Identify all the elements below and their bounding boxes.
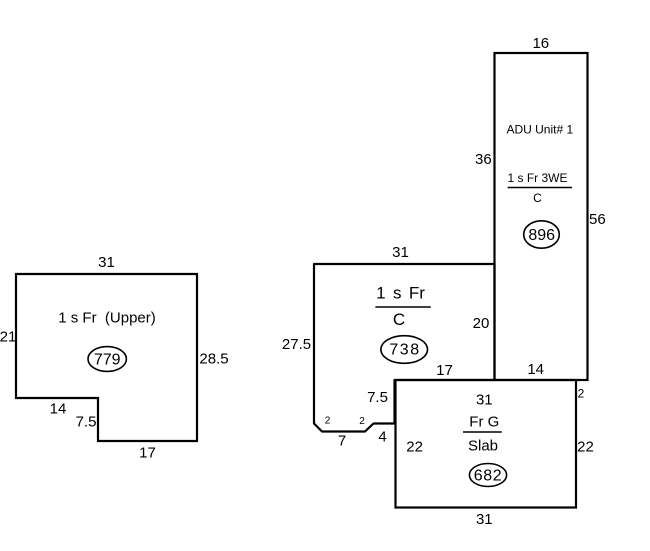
svg-text:C: C <box>533 191 542 205</box>
svg-text:28.5: 28.5 <box>199 351 228 368</box>
svg-text:2: 2 <box>359 416 365 427</box>
building outline: 1 s Fr / C (middle) <box>314 264 495 432</box>
svg-text:14: 14 <box>50 401 67 418</box>
building outline: Fr G / Slab <box>396 380 577 508</box>
svg-text:1 s Fr (Upper): 1 s Fr (Upper) <box>58 310 156 327</box>
svg-text:31: 31 <box>476 392 493 409</box>
svg-text:C: C <box>393 310 405 329</box>
svg-text:31: 31 <box>98 254 115 271</box>
svg-text:16: 16 <box>532 35 549 52</box>
building outline: 1 s Fr (Upper) <box>16 274 197 441</box>
svg-text:4: 4 <box>378 429 386 446</box>
area ellipse 896 <box>524 221 560 248</box>
svg-text:ADU Unit# 1: ADU Unit# 1 <box>506 123 573 137</box>
svg-text:682: 682 <box>474 468 503 485</box>
svg-text:56: 56 <box>589 211 606 228</box>
svg-text:738: 738 <box>389 342 420 359</box>
svg-text:27.5: 27.5 <box>282 336 311 353</box>
svg-text:31: 31 <box>476 511 493 528</box>
svg-text:17: 17 <box>139 445 156 462</box>
svg-text:21: 21 <box>0 329 16 346</box>
fraction line Fr G <box>463 431 502 433</box>
svg-text:1 s Fr 3WE: 1 s Fr 3WE <box>507 171 567 185</box>
area ellipse 738 <box>381 336 428 364</box>
svg-text:17: 17 <box>436 362 453 379</box>
svg-text:896: 896 <box>528 227 555 244</box>
fraction line ADU <box>508 187 572 189</box>
fraction line middle <box>375 306 430 308</box>
svg-text:20: 20 <box>473 315 490 332</box>
svg-text:22: 22 <box>577 439 594 456</box>
svg-text:7: 7 <box>338 433 346 450</box>
svg-text:22: 22 <box>406 439 423 456</box>
svg-text:7.5: 7.5 <box>367 389 388 406</box>
area ellipse 682 <box>469 464 506 487</box>
svg-text:7.5: 7.5 <box>76 414 97 431</box>
building outline: ADU Unit# 1 <box>495 53 588 380</box>
svg-text:2: 2 <box>578 386 585 400</box>
svg-text:14: 14 <box>527 361 544 378</box>
svg-text:1 s Fr: 1 s Fr <box>376 284 425 303</box>
svg-text:2: 2 <box>325 416 331 427</box>
svg-text:779: 779 <box>94 352 121 369</box>
svg-text:31: 31 <box>392 244 409 261</box>
svg-text:36: 36 <box>475 151 492 168</box>
svg-text:Fr G: Fr G <box>469 414 499 431</box>
svg-text:Slab: Slab <box>468 438 498 455</box>
area ellipse 779 <box>88 347 126 372</box>
